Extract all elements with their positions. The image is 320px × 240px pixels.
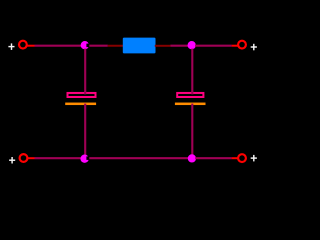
plus mark (+) at bottom-left terminal [9, 157, 15, 164]
pin stub of top-right terminal [232, 45, 238, 47]
wire: bottom rail, left junction to right junction [89, 157, 189, 159]
wire: top rail, resistor pin to right junction [170, 45, 189, 47]
capacitor C1 bottom plate (orange bar) [65, 103, 96, 106]
plus mark (+) at bottom-right terminal [251, 155, 257, 162]
wire: top rail, right junction to right terminal [195, 45, 232, 47]
capacitor C2 top plate (pink outline) [177, 93, 203, 97]
junction dot top-right [188, 41, 196, 49]
wire: left vertical, capacitor C1 down to bottom rail [84, 104, 86, 157]
wire tip overlapping C2 top plate [191, 92, 193, 95]
pin stub of bottom-left terminal [28, 157, 35, 159]
plus mark (+) at top-right terminal [251, 44, 257, 51]
pin stub of top-left terminal [27, 45, 34, 47]
capacitor C2 bottom plate (orange bar) [175, 103, 206, 106]
black notch artifact right of bottom-left junction [86, 156, 89, 160]
pin stub of bottom-right terminal [232, 157, 238, 159]
junction dot top-left [81, 41, 89, 49]
junction dot bottom-left [80, 155, 88, 163]
plus mark (+) at top-left terminal [8, 43, 14, 50]
wire: right vertical, junction down to capacitor C2 [191, 49, 193, 95]
junction dot bottom-right [188, 154, 196, 162]
resistor pin 1 (left, dark red) [108, 45, 124, 47]
wire: bottom rail, right junction to right terminal [195, 157, 231, 159]
wire: bottom rail, terminal to left junction [35, 157, 85, 159]
wire: left vertical, junction down to capacitor C1 [84, 49, 86, 95]
terminal circle bottom-left [20, 154, 28, 162]
wire: right vertical, capacitor C2 down to bottom rail [191, 104, 193, 157]
capacitor C1 top plate (pink outline) [68, 93, 96, 97]
terminal circle top-left [19, 41, 27, 49]
wire: top rail, left junction to resistor pin [89, 45, 108, 47]
resistor R1 body (blue box) [123, 38, 156, 54]
wire tip overlapping C1 top plate [84, 92, 86, 95]
terminal circle bottom-right [238, 154, 246, 162]
wire: top rail, terminal to left junction [35, 45, 85, 47]
terminal circle top-right [238, 41, 246, 49]
black notch artifact right of top-left junction [86, 44, 89, 48]
resistor pin 2 (right, dark red) [155, 45, 171, 47]
